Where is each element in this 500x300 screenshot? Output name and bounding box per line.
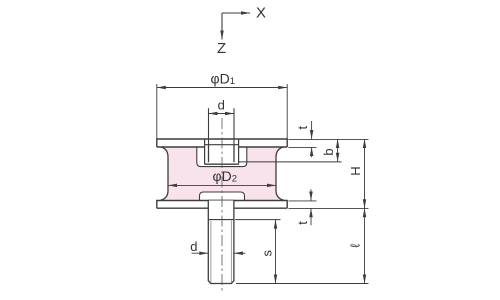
rubber right profile	[276, 147, 285, 201]
svg-text:s: s	[259, 250, 274, 257]
ext nut bottom (b)	[239, 161, 342, 163]
svg-text:X: X	[256, 5, 266, 22]
rubber body (pink)	[160, 147, 285, 201]
svg-text:d: d	[218, 98, 225, 113]
center recess around nut (white)	[197, 147, 247, 167]
rubber left profile	[160, 147, 168, 201]
bottom slot in rubber (white)	[200, 192, 245, 201]
dimension s	[275, 220, 277, 284]
stud outline with bottom chamfer	[208, 201, 234, 284]
svg-text:t: t	[295, 126, 310, 130]
dimension b	[337, 139, 339, 162]
dimension phi-D2	[168, 184, 276, 186]
ext plate1 top	[289, 138, 369, 140]
counterbore / nut cavity	[205, 139, 239, 164]
stud (bolt)	[208, 201, 234, 284]
dimension phi-D1	[157, 84, 287, 139]
extension lines right side	[235, 139, 368, 283]
centerline	[221, 118, 223, 293]
dimension t (bottom plate)	[310, 189, 312, 225]
svg-text:t: t	[295, 221, 310, 225]
axes X/Z indicator	[222, 13, 250, 40]
dimension l (ell)	[364, 208, 366, 283]
thread minor diameter lines	[211, 221, 231, 284]
bottom plate	[157, 201, 287, 209]
dimension d (top)	[209, 108, 235, 144]
svg-text:d: d	[190, 239, 197, 254]
svg-text:b: b	[321, 148, 336, 155]
ext thread start (s)	[235, 219, 280, 221]
ext plate2 top	[289, 200, 317, 202]
dimension H	[364, 139, 366, 208]
top plate	[157, 139, 287, 147]
ext plate1 bottom	[289, 146, 317, 148]
svg-text:Z: Z	[217, 40, 226, 57]
dimension t (top plate)	[311, 121, 313, 157]
thread start line	[208, 219, 234, 221]
svg-text:ℓ: ℓ	[347, 243, 362, 248]
svg-text:H: H	[348, 166, 363, 175]
ext stud bottom	[236, 283, 369, 285]
ext plate2 bottom	[289, 207, 369, 209]
dimension d (bottom, stud)	[192, 252, 246, 254]
svg-text:φD1: φD1	[211, 71, 236, 88]
